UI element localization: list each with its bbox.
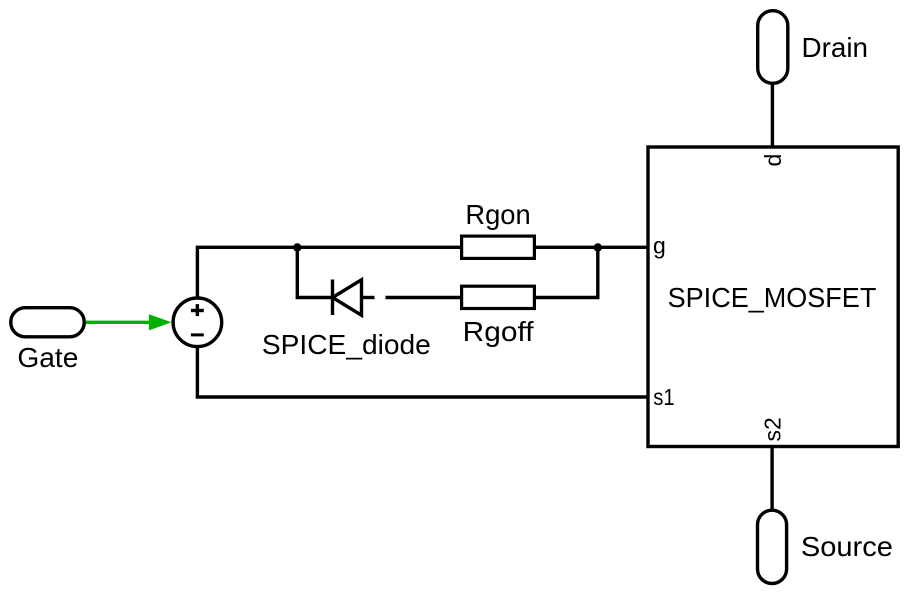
svg-text:SPICE_diode: SPICE_diode <box>262 329 431 360</box>
svg-text:s2: s2 <box>759 417 785 441</box>
svg-text:Drain: Drain <box>802 32 869 63</box>
svg-text:g: g <box>653 233 666 259</box>
svg-text:Source: Source <box>801 531 893 562</box>
svg-text:SPICE_MOSFET: SPICE_MOSFET <box>668 282 877 313</box>
svg-text:Gate: Gate <box>17 342 78 373</box>
svg-text:d: d <box>760 154 786 167</box>
svg-text:Rgon: Rgon <box>465 199 530 230</box>
svg-text:s1: s1 <box>653 384 675 410</box>
svg-text:Rgoff: Rgoff <box>463 316 534 347</box>
